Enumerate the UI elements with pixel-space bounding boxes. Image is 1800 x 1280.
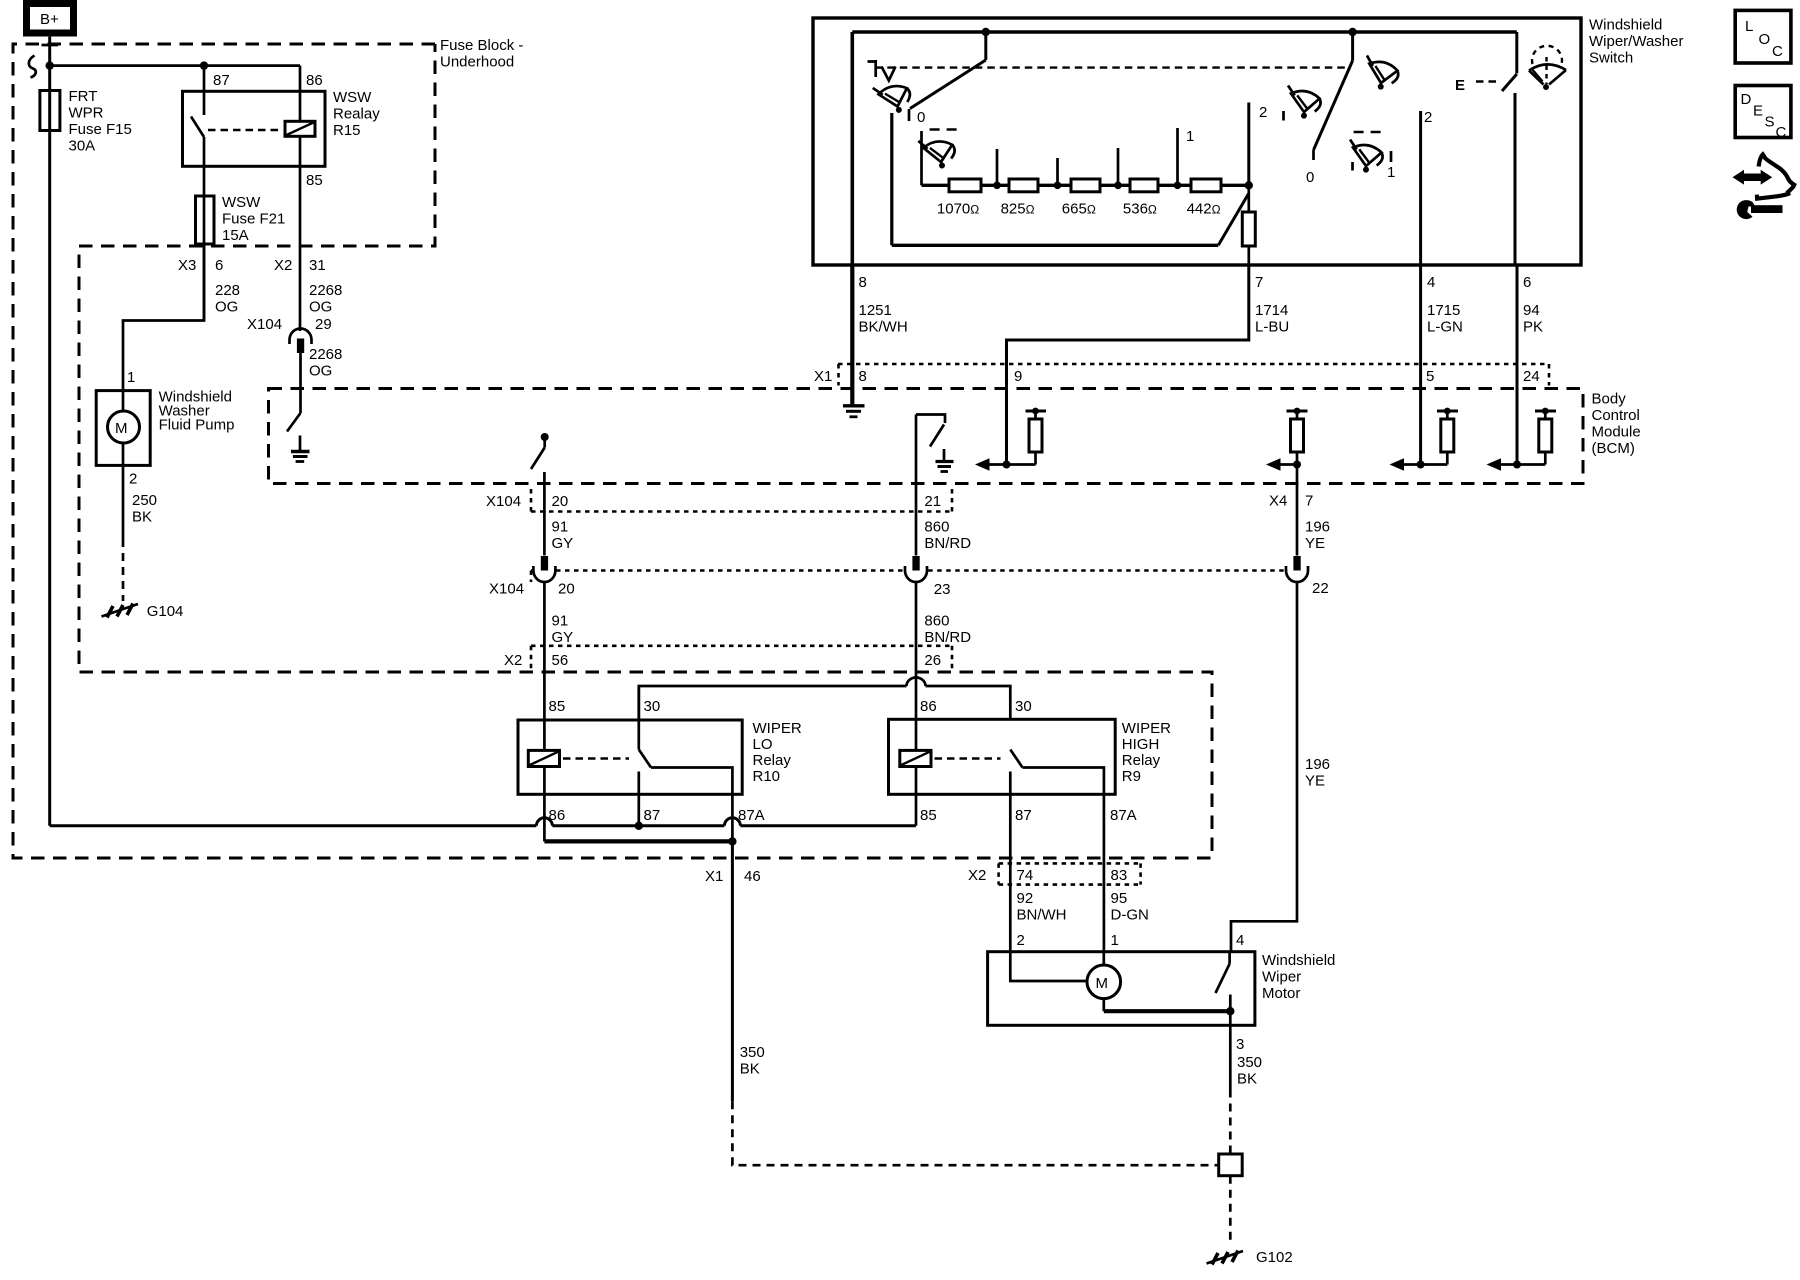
svg-text:E: E	[1753, 103, 1763, 120]
svg-text:BN/WH: BN/WH	[1017, 907, 1067, 924]
svg-text:6: 6	[1523, 274, 1531, 291]
resistor ladder bus	[922, 184, 1249, 187]
wire pin86 drop	[299, 66, 302, 122]
svg-text:7: 7	[1305, 493, 1313, 510]
svg-text:OG: OG	[309, 299, 332, 316]
wire pump to ground dashed	[122, 539, 125, 601]
wiper icon wash position	[873, 80, 914, 118]
wire internal top bus	[852, 30, 1517, 34]
svg-text:2268: 2268	[309, 346, 342, 363]
svg-text:Realay: Realay	[333, 106, 380, 123]
washer nozzle icon	[868, 60, 896, 81]
ground G102	[1207, 1251, 1244, 1265]
svg-text:BK/WH: BK/WH	[859, 319, 908, 336]
mechanical linkage dashed	[875, 66, 1345, 68]
svg-text:PK: PK	[1523, 319, 1543, 336]
wire 1714 L-BU pin 7 jog	[1007, 265, 1249, 465]
svg-text:87A: 87A	[1110, 807, 1137, 824]
wire 350 BK right solid	[1229, 1011, 1232, 1089]
svg-text:30A: 30A	[69, 138, 96, 155]
svg-text:Module: Module	[1592, 424, 1641, 441]
connector X1 strip	[838, 364, 1549, 386]
svg-text:BN/RD: BN/RD	[924, 629, 971, 646]
svg-text:X1: X1	[814, 368, 832, 385]
svg-text:WIPER: WIPER	[1122, 720, 1171, 737]
wire motor pin2 internal	[1010, 952, 1087, 981]
svg-text:2: 2	[1424, 109, 1432, 126]
svg-text:L-BU: L-BU	[1255, 319, 1289, 336]
wire washer switch drop into BCM	[299, 353, 302, 413]
node tap4	[1174, 128, 1182, 189]
svg-text:2: 2	[1017, 932, 1025, 949]
svg-text:30: 30	[644, 698, 661, 715]
svg-text:9: 9	[1014, 368, 1022, 385]
svg-text:X104: X104	[247, 316, 282, 333]
svg-text:1715: 1715	[1427, 302, 1460, 319]
svg-text:R15: R15	[333, 122, 361, 139]
svg-text:85: 85	[920, 807, 937, 824]
svg-text:1: 1	[1111, 932, 1119, 949]
resistor 536 ohm	[1130, 179, 1158, 192]
svg-text:WSW: WSW	[333, 89, 372, 106]
label wire 250 BK	[132, 492, 157, 526]
relay R10 switch	[639, 686, 733, 841]
svg-text:228: 228	[215, 282, 240, 299]
label Body Control Module (BCM)	[1592, 391, 1641, 458]
svg-text:Windshield: Windshield	[1589, 17, 1662, 34]
svg-text:1251: 1251	[859, 302, 892, 319]
svg-text:1070Ω: 1070Ω	[937, 201, 979, 218]
svg-text:L: L	[1745, 18, 1753, 35]
wire 860 BN/RD lower	[915, 582, 918, 750]
svg-text:74: 74	[1017, 867, 1034, 884]
wire internal left feed to pin 8	[850, 32, 854, 265]
svg-text:2268: 2268	[309, 282, 342, 299]
wire R9 coil 86 to 85	[915, 767, 918, 826]
svg-text:20: 20	[558, 581, 575, 598]
double arrow icon	[1733, 170, 1773, 185]
wire motor common link	[1104, 999, 1235, 1016]
svg-text:X1: X1	[705, 868, 723, 885]
svg-text:92: 92	[1017, 890, 1034, 907]
label connector X104 pin 29	[247, 316, 332, 333]
svg-text:8: 8	[859, 274, 867, 291]
wire 350 BK dashed to splice	[732, 1101, 1218, 1165]
curved outline icon	[1757, 154, 1794, 198]
wire 91 GY lower	[543, 582, 546, 750]
svg-text:YE: YE	[1305, 773, 1325, 790]
svg-text:350: 350	[1237, 1054, 1262, 1071]
label connector X2 pin 31	[274, 257, 326, 274]
svg-text:BK: BK	[740, 1061, 760, 1078]
svg-text:91: 91	[552, 613, 569, 630]
label WIPER LO Relay R10	[753, 720, 802, 785]
wire internal bottom bus	[892, 244, 1219, 247]
svg-text:196: 196	[1305, 756, 1330, 773]
svg-text:860: 860	[924, 519, 949, 536]
svg-text:O: O	[1759, 31, 1771, 48]
svg-text:665Ω: 665Ω	[1062, 201, 1096, 218]
svg-text:G104: G104	[147, 603, 184, 620]
module input pin 24	[1487, 408, 1557, 471]
switch BCM washer drive	[531, 433, 549, 469]
wire 228 OG jog to pump	[123, 244, 204, 391]
svg-text:0: 0	[917, 109, 925, 126]
svg-text:86: 86	[920, 698, 937, 715]
svg-text:Underhood: Underhood	[440, 54, 514, 71]
wire pin 4 contact	[1419, 111, 1422, 265]
svg-text:Fuse F21: Fuse F21	[222, 211, 285, 228]
DESC reference box	[1735, 86, 1791, 142]
wire 1715 L-GN pin 4 drop	[1419, 265, 1422, 465]
wire B+ bus to relays	[50, 818, 916, 826]
switch arm washer	[909, 28, 990, 121]
svg-text:Fluid Pump: Fluid Pump	[159, 417, 235, 434]
connector X2 strip lower	[999, 863, 1141, 884]
label windshield wiper motor	[1262, 952, 1335, 1002]
splice S-box	[1219, 1154, 1243, 1176]
svg-text:(BCM): (BCM)	[1592, 440, 1635, 457]
svg-text:M: M	[115, 420, 128, 437]
svg-text:87: 87	[213, 72, 230, 89]
module output X4 pin 7	[1266, 408, 1308, 471]
svg-text:1: 1	[127, 369, 135, 386]
label Fuse Block - Underhood	[440, 37, 523, 71]
svg-text:X104: X104	[489, 581, 524, 598]
svg-text:87: 87	[1015, 807, 1032, 824]
wire 94 PK pin 6 drop	[1516, 265, 1519, 465]
svg-text:3: 3	[1236, 1036, 1244, 1053]
svg-text:BK: BK	[132, 509, 152, 526]
switch arm delay selector	[1218, 193, 1249, 245]
resistor 442 ohm	[1191, 179, 1221, 192]
svg-text:FRT: FRT	[69, 88, 98, 105]
svg-text:Relay: Relay	[1122, 752, 1161, 769]
svg-text:5: 5	[1426, 368, 1434, 385]
svg-text:1714: 1714	[1255, 302, 1288, 319]
switch arm mode selector	[1314, 28, 1357, 160]
svg-text:536Ω: 536Ω	[1123, 201, 1157, 218]
connector X104 row2 strip	[531, 571, 1285, 583]
connector X104:20 inline	[533, 556, 555, 582]
svg-text:15A: 15A	[222, 227, 249, 244]
svg-text:HIGH: HIGH	[1122, 736, 1160, 753]
ground BCM pin 8	[843, 406, 865, 417]
wiper icon low with contact tick	[1284, 86, 1323, 121]
relay R9 box	[889, 719, 1116, 794]
relay R9 coil	[900, 750, 931, 766]
svg-text:GY: GY	[552, 629, 574, 646]
wire position-0 contact drop	[890, 113, 893, 245]
LOC reference box	[1735, 10, 1791, 63]
svg-text:R9: R9	[1122, 768, 1141, 785]
svg-text:L-GN: L-GN	[1427, 319, 1463, 336]
wire R10 86 to 87A link	[544, 839, 732, 843]
resistor 1070 ohm	[949, 179, 981, 192]
label wire 94 PK	[1523, 302, 1543, 336]
svg-text:OG: OG	[309, 363, 332, 380]
washer spray icon	[1529, 46, 1566, 90]
svg-text:Body: Body	[1592, 391, 1627, 408]
relay R15 linkage	[208, 129, 281, 131]
relay R10 coil	[528, 750, 559, 766]
svg-text:D-GN: D-GN	[1111, 907, 1149, 924]
label wire 860 BN/RD upper	[924, 519, 971, 553]
relay R15 switch blade	[191, 117, 204, 138]
label wire 95 D-GN	[1111, 890, 1149, 924]
relay R15 box	[183, 91, 326, 166]
svg-text:X2: X2	[274, 257, 292, 274]
wire 91 GY upper	[543, 472, 546, 556]
windshield washer fluid pump motor	[96, 391, 150, 466]
svg-text:94: 94	[1523, 302, 1540, 319]
fuse F15 FRT WPR 30A	[40, 91, 60, 131]
svg-text:WPR: WPR	[69, 105, 104, 122]
wire delay contact drop	[920, 131, 923, 185]
fuse F21 WSW 15A	[196, 196, 215, 244]
svg-text:4: 4	[1427, 274, 1435, 291]
svg-text:23: 23	[934, 581, 951, 598]
svg-text:2: 2	[1259, 104, 1267, 121]
intermittent wiper icon with dash marks	[918, 130, 962, 172]
svg-text:250: 250	[132, 492, 157, 509]
wire 860 BN/RD upper	[915, 415, 918, 556]
svg-text:1: 1	[1186, 128, 1194, 145]
wiper icon intermittent with dash marks	[1346, 132, 1391, 175]
svg-text:7: 7	[1255, 274, 1263, 291]
svg-text:Fuse F15: Fuse F15	[69, 121, 132, 138]
motor park switch	[1216, 952, 1231, 1012]
svg-text:Motor: Motor	[1262, 985, 1300, 1002]
svg-text:860: 860	[924, 613, 949, 630]
svg-text:0: 0	[1306, 169, 1314, 186]
svg-text:825Ω: 825Ω	[1001, 201, 1035, 218]
svg-text:WSW: WSW	[222, 194, 261, 211]
svg-text:YE: YE	[1305, 535, 1325, 552]
label wire 228 OG	[215, 282, 240, 316]
svg-text:6: 6	[215, 257, 223, 274]
svg-text:Fuse Block -: Fuse Block -	[440, 37, 523, 54]
svg-text:196: 196	[1305, 519, 1330, 536]
svg-text:X4: X4	[1269, 493, 1287, 510]
svg-text:350: 350	[740, 1044, 765, 1061]
svg-text:86: 86	[306, 72, 323, 89]
svg-text:83: 83	[1111, 867, 1128, 884]
ground G104	[102, 604, 139, 618]
svg-text:Relay: Relay	[753, 752, 792, 769]
svg-text:LO: LO	[753, 736, 773, 753]
label WSW Realay R15	[333, 89, 380, 139]
svg-text:G102: G102	[1256, 1249, 1293, 1266]
label wire 1714 L-BU	[1255, 302, 1289, 336]
label windshield wiper/washer switch	[1589, 17, 1683, 67]
svg-text:91: 91	[552, 519, 569, 536]
svg-text:95: 95	[1111, 890, 1128, 907]
wire splice to ground dashed	[1229, 1176, 1232, 1244]
svg-text:20: 20	[552, 493, 569, 510]
connector X104:29 inline	[290, 329, 312, 354]
node tap3	[1114, 148, 1122, 189]
wire R10 coil 85 to 86	[543, 767, 546, 842]
wire 1251 BK/WH pin 8 drop	[850, 265, 854, 405]
svg-text:22: 22	[1312, 580, 1329, 597]
label WIPER HIGH Relay R9	[1122, 720, 1171, 785]
connector X104 row1 strip	[531, 489, 952, 512]
label wire 1715 L-GN	[1427, 302, 1463, 336]
svg-text:B+: B+	[40, 11, 59, 28]
svg-text:Windshield: Windshield	[1262, 952, 1335, 969]
resistor 825 ohm	[1009, 179, 1038, 192]
node B+ junction	[46, 61, 54, 69]
relay R9 linkage	[935, 757, 1001, 759]
Fuse Block - Underhood dashed outline	[13, 44, 1212, 858]
svg-text:BK: BK	[1237, 1071, 1257, 1088]
wire B+ vertical feed	[48, 37, 51, 826]
label fuse F21	[222, 194, 285, 244]
connector X2 strip upper	[531, 646, 952, 671]
resistor ladder series output	[1242, 185, 1255, 265]
motor box	[988, 952, 1255, 1026]
BCM dashed box	[269, 389, 1584, 484]
svg-text:46: 46	[744, 868, 761, 885]
resistor 665 ohm	[1071, 179, 1100, 192]
svg-text:26: 26	[924, 652, 941, 669]
switch BCM wiper output	[916, 415, 954, 472]
svg-text:GY: GY	[552, 535, 574, 552]
svg-text:85: 85	[549, 698, 566, 715]
node tap1	[993, 149, 1001, 189]
svg-text:M: M	[1096, 975, 1109, 992]
svg-text:4: 4	[1236, 932, 1244, 949]
relay R15 coil	[285, 121, 315, 136]
svg-text:2: 2	[129, 471, 137, 488]
svg-text:WIPER: WIPER	[753, 720, 802, 737]
label connector X3 pin 6	[178, 257, 223, 274]
svg-text:Wiper: Wiper	[1262, 969, 1301, 986]
svg-text:30: 30	[1015, 698, 1032, 715]
wire motor pin1 internal	[1102, 952, 1105, 965]
wire 196 YE from X4	[1296, 465, 1299, 556]
label wire 350 BK right	[1237, 1054, 1262, 1088]
svg-text:8: 8	[859, 368, 867, 385]
svg-text:31: 31	[309, 257, 326, 274]
svg-text:X104: X104	[486, 493, 521, 510]
svg-text:Control: Control	[1592, 407, 1640, 424]
svg-text:OG: OG	[215, 299, 238, 316]
svg-text:X3: X3	[178, 257, 196, 274]
wire relay 30 link	[639, 678, 1011, 721]
label wire 91 GY upper	[552, 519, 574, 553]
node tap2	[1054, 158, 1062, 189]
svg-text:D: D	[1741, 91, 1752, 108]
label wire 196 YE lower	[1305, 756, 1330, 790]
label wire 860 BN/RD lower	[924, 613, 971, 647]
connector X104:22 inline	[1286, 556, 1308, 582]
label fuse F15	[69, 88, 132, 155]
module input pin 9	[975, 408, 1046, 471]
svg-text:S: S	[1765, 114, 1775, 131]
fusible link hook	[29, 56, 36, 78]
svg-text:E: E	[1455, 77, 1465, 94]
label wire 196 YE upper	[1305, 519, 1330, 553]
svg-text:56: 56	[552, 652, 569, 669]
switch arm park E	[1502, 32, 1517, 265]
label wire 91 GY lower	[552, 613, 574, 647]
svg-text:85: 85	[306, 172, 323, 189]
svg-text:442Ω: 442Ω	[1187, 201, 1221, 218]
wrench icon	[1737, 200, 1783, 219]
svg-text:87: 87	[644, 807, 661, 824]
relay R9 switch	[1010, 750, 1104, 952]
svg-text:1: 1	[1387, 164, 1395, 181]
ground inside BCM below washer switch	[291, 436, 310, 462]
svg-text:R10: R10	[753, 768, 781, 785]
svg-text:C: C	[1776, 124, 1787, 141]
label windshield washer fluid pump	[159, 389, 235, 434]
wiper icon mist	[1361, 55, 1401, 92]
wire pin87 drop	[203, 66, 206, 115]
wire position-2 contact	[1247, 103, 1250, 186]
label wire 1251 BK/WH	[859, 302, 908, 336]
svg-text:Wiper/Washer: Wiper/Washer	[1589, 33, 1683, 50]
node relay87 junction	[200, 61, 208, 69]
svg-text:87A: 87A	[738, 807, 765, 824]
battery B+ symbol	[27, 4, 74, 34]
label wire 350 BK left	[740, 1044, 765, 1078]
wire pin85 to connector	[299, 136, 302, 331]
svg-text:C: C	[1772, 43, 1783, 60]
switch assembly box	[813, 18, 1581, 265]
wire 350 BK right dashed	[1229, 1090, 1232, 1155]
node R10 87 to bus	[635, 822, 643, 830]
linkage dashed E to park switch	[1476, 80, 1500, 82]
svg-text:BN/RD: BN/RD	[924, 535, 971, 552]
label wire 92 BN/WH	[1017, 890, 1067, 924]
connector X104:23 inline	[905, 556, 927, 582]
motor M circle	[1087, 965, 1121, 999]
wire crossing tick at dashed border	[42, 44, 59, 47]
svg-text:29: 29	[315, 316, 332, 333]
wire relay87 to fuse F21	[203, 137, 206, 321]
svg-text:21: 21	[924, 493, 941, 510]
washer switch blade in BCM	[287, 413, 301, 432]
wire 196 YE long run	[1231, 582, 1297, 952]
label wire 2268 OG	[309, 282, 342, 316]
svg-text:X2: X2	[504, 652, 522, 669]
relay R10 linkage	[563, 757, 629, 759]
node resistor ladder output	[1245, 181, 1253, 189]
wire pump to ground solid	[122, 465, 125, 539]
label wire 2268 OG below connector	[309, 346, 342, 380]
wire 350 BK left drop	[731, 841, 734, 1101]
svg-text:24: 24	[1523, 368, 1540, 385]
node 87A junction	[728, 837, 736, 845]
wire feed to relay R15	[50, 64, 300, 67]
module input pin 5	[1390, 408, 1459, 471]
relay R10 box	[518, 720, 742, 794]
svg-text:Switch: Switch	[1589, 50, 1633, 67]
svg-text:X2: X2	[968, 867, 986, 884]
